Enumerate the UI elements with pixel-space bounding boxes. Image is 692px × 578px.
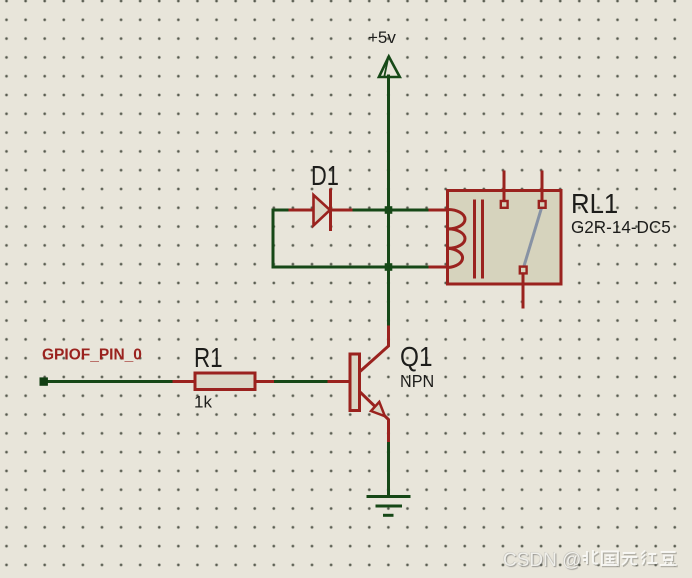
svg-text:GPIOF_PIN_0: GPIOF_PIN_0 [42,347,142,364]
svg-text:1k: 1k [194,393,212,412]
svg-text:G2R-14-DC5: G2R-14-DC5 [571,217,671,238]
svg-text:RL1: RL1 [571,188,618,219]
svg-text:Q1: Q1 [400,340,432,372]
svg-text:+5v: +5v [368,28,396,47]
svg-text:D1: D1 [311,160,339,191]
svg-text:R1: R1 [194,343,223,374]
svg-text:NPN: NPN [400,371,434,391]
